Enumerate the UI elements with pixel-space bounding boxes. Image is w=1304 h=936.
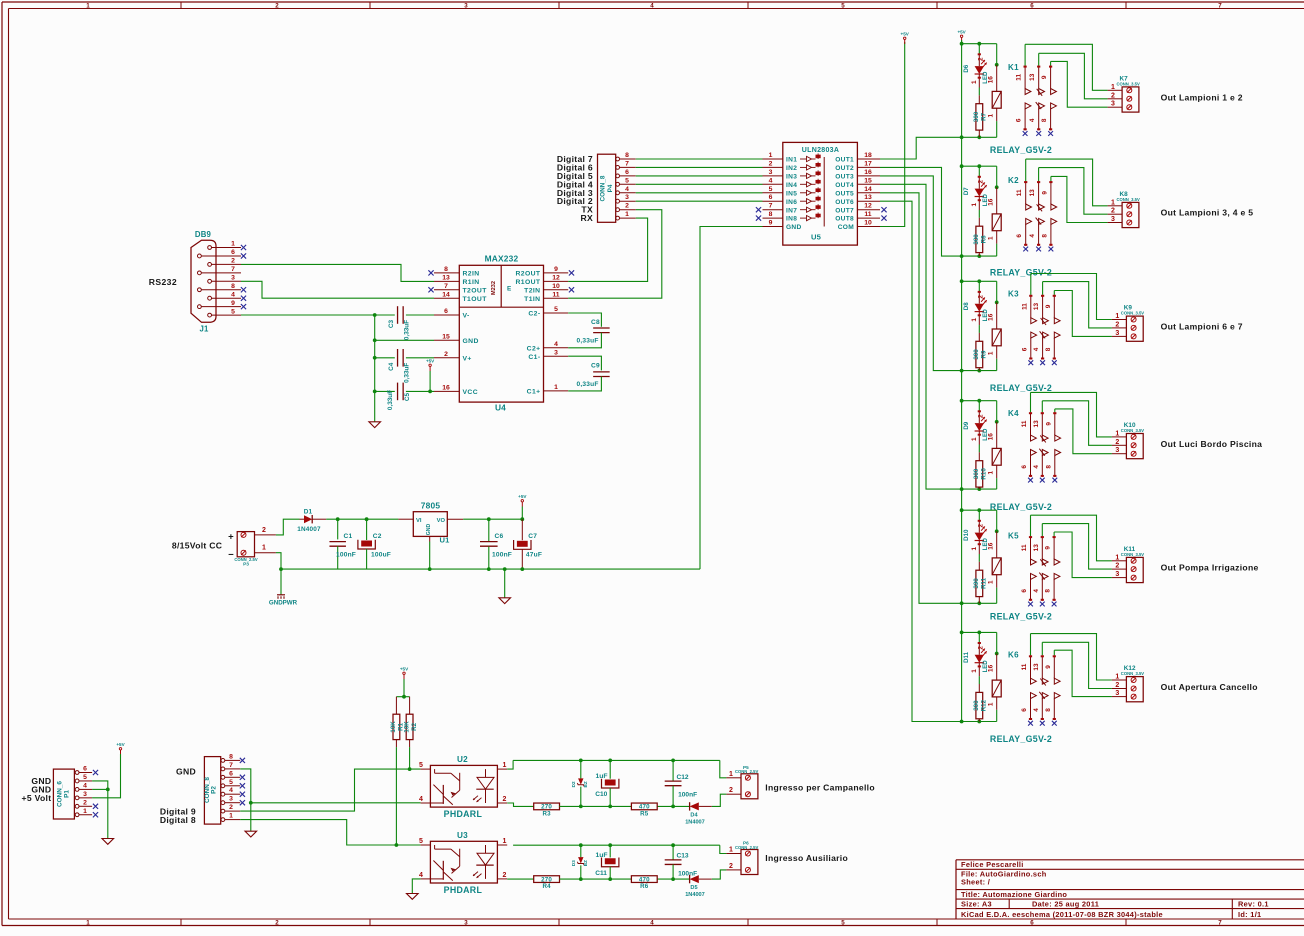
svg-text:6: 6 (1021, 347, 1028, 351)
svg-text:13: 13 (864, 194, 872, 201)
svg-text:100nF: 100nF (678, 792, 697, 799)
zener diode D3 (580, 845, 582, 857)
svg-text:R1OUT: R1OUT (515, 279, 540, 286)
svg-text:1: 1 (971, 546, 978, 550)
svg-text:8: 8 (231, 283, 235, 290)
svg-text:1: 1 (987, 470, 994, 474)
svg-text:T2IN: T2IN (524, 287, 540, 294)
svg-text:0,33uF: 0,33uF (577, 381, 599, 388)
no-connect P1 pins 6 2 1 (93, 770, 98, 775)
svg-text:1: 1 (1115, 313, 1119, 320)
svg-text:13: 13 (1029, 73, 1036, 81)
svg-text:16: 16 (988, 664, 995, 672)
svg-text:R2OUT: R2OUT (515, 271, 540, 278)
svg-text:U2: U2 (457, 755, 468, 764)
svg-text:R5: R5 (640, 810, 649, 817)
svg-text:390: 390 (973, 111, 980, 122)
svg-text:T2OUT: T2OUT (463, 287, 488, 294)
relay K5 contacts (1030, 515, 1032, 536)
svg-text:5: 5 (419, 762, 423, 769)
svg-text:R2IN: R2IN (463, 271, 480, 278)
svg-text:13: 13 (1033, 303, 1040, 311)
connector J1 DB9 (191, 240, 216, 322)
svg-text:5: 5 (419, 838, 423, 845)
svg-text:D5: D5 (690, 885, 697, 891)
ground symbol below P2 (245, 831, 257, 837)
wire P2 pin1 to U3 pin5 (240, 820, 420, 845)
svg-text:+5V: +5V (901, 32, 910, 37)
svg-text:2: 2 (1115, 439, 1119, 446)
svg-text:D2: D2 (571, 781, 576, 787)
svg-text:+5V: +5V (400, 667, 409, 672)
LED D9 (978, 401, 980, 412)
svg-text:3: 3 (1115, 690, 1119, 697)
wire bottom rail relay block 2 (962, 255, 997, 257)
svg-text:16: 16 (988, 76, 995, 84)
svg-text:1: 1 (987, 580, 994, 584)
svg-text:CONN_2.5V: CONN_2.5V (735, 769, 758, 774)
wire LED to resistor R11 (978, 554, 980, 562)
capacitor C9 0,33uF (568, 356, 601, 370)
connector K11 CONN_3.5V (1126, 557, 1143, 582)
connector P6 CONN_2.5V (741, 850, 758, 875)
svg-text:U5: U5 (811, 233, 822, 242)
svg-text:13: 13 (1029, 189, 1036, 197)
svg-text:CONN_3.5V: CONN_3.5V (1121, 671, 1144, 676)
relay K3 contacts (1030, 274, 1032, 295)
resistor R8 300 (978, 218, 980, 226)
wire R1 down to U3 pin5 net (395, 747, 397, 845)
svg-text:C5: C5 (404, 392, 411, 401)
svg-text:GNDPWR: GNDPWR (269, 599, 298, 606)
svg-text:+: + (228, 532, 234, 543)
wires P4 to U5 inputs (636, 158, 763, 160)
svg-text:C2-: C2- (528, 311, 540, 318)
capacitor C7 47uF (521, 519, 523, 540)
svg-text:2: 2 (275, 2, 279, 9)
svg-text:10: 10 (552, 283, 560, 290)
svg-text:+5V: +5V (957, 30, 966, 35)
wire LED to resistor R7 (978, 88, 980, 96)
capacitor C10 1uF (609, 760, 611, 778)
svg-text:11: 11 (1021, 544, 1028, 551)
svg-text:R4: R4 (542, 883, 551, 890)
svg-text:IN2: IN2 (786, 165, 797, 172)
svg-text:2: 2 (444, 351, 448, 358)
svg-text:7: 7 (1218, 2, 1222, 9)
svg-text:4: 4 (83, 782, 87, 789)
wire LED to resistor R9 (978, 325, 980, 333)
wires relay K6 contacts to K12 (1031, 634, 1112, 680)
svg-text:P4: P4 (607, 184, 614, 192)
svg-text:OUT8: OUT8 (835, 216, 854, 223)
svg-text:Date: 25 aug 2011: Date: 25 aug 2011 (1032, 899, 1099, 908)
wire U5 OUT1 to relay K1 (880, 137, 962, 159)
svg-text:K3: K3 (1008, 290, 1019, 299)
svg-text:1: 1 (729, 771, 733, 778)
optocoupler U3 PHDARL (430, 841, 497, 883)
capacitor C11 1uF (609, 845, 611, 857)
svg-text:OUT6: OUT6 (835, 199, 854, 206)
wire +5V rail relay block 5 (962, 509, 997, 511)
svg-text:8: 8 (1045, 589, 1052, 593)
svg-text:OUT4: OUT4 (835, 182, 854, 189)
svg-text:11: 11 (1021, 303, 1028, 310)
wire DB9 pin3 to U4 T1OUT (241, 281, 434, 298)
capacitor C8 0,33uF (568, 313, 601, 327)
resistor R4 270 (507, 878, 534, 880)
relay K1 coil (996, 44, 998, 65)
svg-text:4: 4 (231, 291, 235, 298)
svg-text:8: 8 (1041, 234, 1048, 238)
relay K4 contacts (1030, 392, 1032, 412)
svg-text:1: 1 (971, 437, 978, 441)
wires relay K4 contacts to K10 (1031, 392, 1112, 437)
svg-text:D9: D9 (963, 421, 970, 429)
svg-text:+5V: +5V (426, 359, 435, 364)
wire U3 pin4 to ground (412, 879, 420, 894)
svg-text:1: 1 (971, 318, 978, 322)
svg-text:CONN_3.5V: CONN_3.5V (1121, 552, 1144, 557)
svg-text:2: 2 (275, 920, 279, 927)
wire U5 OUT5 to relay K5 (880, 193, 962, 604)
wire bus to U4 V+ with C4 (375, 357, 395, 359)
svg-text:5: 5 (554, 306, 558, 313)
IC U5 ULN2803A (783, 142, 858, 245)
svg-text:RX: RX (580, 213, 593, 223)
svg-text:5: 5 (83, 774, 87, 781)
svg-text:300: 300 (973, 349, 980, 360)
svg-text:2: 2 (729, 787, 733, 794)
capacitor C1 100nF (337, 519, 339, 539)
wire U5 COM to +5V (880, 42, 905, 227)
svg-text:1: 1 (971, 202, 978, 206)
svg-text:R6: R6 (640, 883, 649, 890)
svg-text:CONN_3.5V: CONN_3.5V (1117, 82, 1140, 87)
wire P3 pin2 to D1 (276, 519, 300, 535)
svg-text:13: 13 (1033, 544, 1040, 552)
U5 interior driver cells (823, 157, 825, 227)
no-connect J1 pins 1 6 8 4 9 (241, 245, 246, 250)
wire bottom rail relay block 4 (962, 488, 997, 490)
svg-text:R3: R3 (542, 810, 551, 817)
svg-text:390: 390 (973, 578, 980, 589)
svg-text:Out Lampioni 1 e 2: Out Lampioni 1 e 2 (1161, 92, 1243, 102)
relay K2 contacts (1025, 159, 1027, 181)
svg-text:J1: J1 (199, 325, 209, 334)
wire DB9 pin5 to U4 V- with C3 (241, 314, 395, 316)
svg-text:CONN_2.5V: CONN_2.5V (735, 845, 758, 850)
svg-text:U1: U1 (439, 536, 450, 545)
svg-text:DB9: DB9 (195, 230, 212, 239)
relay K5 coil (996, 510, 998, 531)
connector P2 CONN_8 (204, 757, 220, 825)
svg-text:VO: VO (437, 518, 446, 524)
capacitor C2 100uF (366, 519, 368, 540)
svg-text:6: 6 (444, 308, 448, 315)
resistor R7 390 (978, 95, 980, 103)
svg-text:IN1: IN1 (786, 157, 797, 164)
svg-text:3: 3 (464, 920, 468, 927)
svg-text:C7: C7 (528, 533, 537, 540)
wire U5 OUT6 to relay K6 (880, 201, 962, 721)
svg-text:3: 3 (1111, 101, 1115, 108)
resistor R12 300 (978, 684, 980, 692)
svg-text:8: 8 (1045, 347, 1052, 351)
wire LED to resistor R8 (978, 210, 980, 218)
svg-text:Out Pompa Irrigazione: Out Pompa Irrigazione (1161, 563, 1259, 573)
svg-text:2: 2 (231, 258, 235, 265)
svg-text:16: 16 (988, 313, 995, 321)
svg-text:7: 7 (444, 283, 448, 290)
wire U4 T1IN to P4 TX (568, 210, 662, 299)
svg-text:RELAY_G5V-2: RELAY_G5V-2 (990, 612, 1052, 622)
svg-text:1: 1 (769, 152, 773, 159)
svg-text:14: 14 (442, 291, 450, 298)
svg-text:6: 6 (1021, 589, 1028, 593)
svg-text:Size: A3: Size: A3 (961, 899, 992, 908)
svg-text:16: 16 (988, 198, 995, 206)
power ground rail (281, 568, 700, 570)
svg-text:C1-: C1- (528, 354, 540, 361)
LED D11 (978, 632, 980, 643)
wire R2 down to U2 pin5 net (409, 747, 411, 769)
svg-text:5: 5 (841, 2, 845, 9)
svg-text:2: 2 (502, 872, 506, 879)
svg-text:C2: C2 (373, 533, 382, 540)
relay K4 coil (996, 401, 998, 422)
wire LED to resistor R10 (978, 445, 980, 453)
svg-text:9: 9 (1045, 546, 1052, 550)
wire rail to connector P6 pin1 (720, 845, 727, 853)
capacitor C4 0,33uF (397, 349, 399, 367)
svg-text:5: 5 (769, 186, 773, 193)
svg-text:1: 1 (971, 669, 978, 673)
svg-text:C6: C6 (495, 533, 504, 540)
svg-text:V-: V- (463, 313, 470, 320)
svg-text:1: 1 (987, 113, 994, 117)
svg-text:9: 9 (231, 300, 235, 307)
svg-text:Out Lampioni 6 e 7: Out Lampioni 6 e 7 (1161, 321, 1243, 331)
svg-text:7805: 7805 (421, 501, 441, 511)
svg-text:K6: K6 (1008, 651, 1019, 660)
svg-text:3: 3 (231, 275, 235, 282)
svg-text:0,33uF: 0,33uF (577, 338, 599, 345)
svg-text:7: 7 (625, 160, 629, 167)
svg-text:OUT2: OUT2 (835, 165, 854, 172)
svg-text:1: 1 (231, 241, 235, 248)
svg-text:1N4007: 1N4007 (297, 526, 321, 533)
svg-text:3: 3 (1115, 330, 1119, 337)
svg-text:5: 5 (231, 308, 235, 315)
relay K3 coil (996, 281, 998, 302)
connector K8 CONN_3.5V (1122, 202, 1139, 227)
svg-text:300: 300 (973, 700, 980, 711)
connector P5 CONN_2.5V (741, 774, 758, 799)
svg-text:M232: M232 (491, 281, 497, 295)
ground symbol power rail (504, 569, 506, 598)
svg-text:RELAY_G5V-2: RELAY_G5V-2 (990, 383, 1052, 393)
wires relay K1 contacts to K7 (1025, 44, 1108, 90)
svg-text:4: 4 (554, 341, 558, 348)
connector K9 CONN_3.5V (1126, 316, 1143, 341)
svg-text:D11: D11 (963, 651, 970, 663)
svg-text:5: 5 (625, 177, 629, 184)
svg-text:Out Apertura Cancello: Out Apertura Cancello (1161, 682, 1258, 692)
svg-text:GND: GND (786, 224, 802, 231)
wire GND bus to U4 GND pin15 (375, 339, 434, 341)
svg-text:3: 3 (625, 194, 629, 201)
wire bottom rail relay block 6 (962, 721, 997, 723)
svg-text:4: 4 (1033, 347, 1040, 351)
resistor R9 300 (978, 333, 980, 341)
svg-text:1uF: 1uF (596, 773, 608, 780)
svg-text:COM: COM (838, 224, 854, 231)
svg-text:100nF: 100nF (336, 552, 356, 559)
LED D6 (978, 44, 980, 55)
svg-text:1: 1 (1111, 199, 1115, 206)
svg-text:4: 4 (650, 920, 654, 927)
svg-text:1N4007: 1N4007 (685, 819, 705, 825)
svg-text:RELAY_G5V-2: RELAY_G5V-2 (990, 268, 1052, 278)
wire rail to connector P5 pin1 (720, 760, 727, 777)
svg-text:C1+: C1+ (527, 389, 541, 396)
resistor R6 470 (631, 876, 657, 883)
svg-text:T1OUT: T1OUT (463, 296, 488, 303)
svg-text:D8: D8 (963, 302, 970, 310)
svg-text:11: 11 (1016, 189, 1023, 196)
svg-text:K4: K4 (1008, 409, 1019, 418)
no-connect U5 IN7 IN8 OUT7 OUT8 (756, 207, 761, 212)
svg-text:8: 8 (1045, 708, 1052, 712)
wire R3 to diode D4 (559, 805, 631, 807)
svg-text:C11: C11 (595, 870, 607, 877)
svg-text:6: 6 (769, 194, 773, 201)
svg-text:16: 16 (988, 433, 995, 441)
svg-text:3: 3 (1111, 216, 1115, 223)
svg-text:T1IN: T1IN (524, 296, 540, 303)
svg-text:3: 3 (1115, 571, 1119, 578)
svg-text:4: 4 (229, 787, 233, 794)
svg-text:PHDARL: PHDARL (444, 885, 483, 895)
wire +5V rail relay block 6 (962, 631, 997, 633)
wires relay K5 contacts to K11 (1031, 515, 1112, 561)
svg-text:+5V: +5V (116, 742, 125, 747)
svg-text:0,33uF: 0,33uF (404, 363, 411, 383)
svg-text:11: 11 (864, 211, 871, 218)
svg-text:4: 4 (1033, 589, 1040, 593)
svg-text:−: − (228, 550, 234, 561)
svg-text:9: 9 (1041, 191, 1048, 195)
diode D4 1N4007 (689, 802, 691, 810)
svg-text:2: 2 (769, 160, 773, 167)
svg-text:Sheet: /: Sheet: / (961, 877, 990, 886)
svg-text:2: 2 (729, 863, 733, 870)
wire D1 to U1 VI (326, 518, 398, 520)
svg-text:1: 1 (86, 920, 90, 927)
svg-text:6: 6 (1021, 465, 1028, 469)
relay K1 contacts (1024, 44, 1026, 65)
svg-text:C13: C13 (677, 853, 689, 860)
diode D5 1N4007 (689, 875, 691, 883)
wire U5 OUT2 to relay K2 (880, 167, 962, 256)
svg-text:K5: K5 (1008, 532, 1019, 541)
svg-text:VCC: VCC (463, 389, 479, 396)
svg-text:D4: D4 (690, 812, 698, 818)
svg-text:10K: 10K (403, 721, 410, 733)
svg-text:7: 7 (769, 203, 773, 210)
svg-text:KiCad E.D.A. eeschema (2011-0: KiCad E.D.A. eeschema (2011-07-08 BZR 30… (961, 910, 1163, 919)
svg-text:4: 4 (1029, 234, 1036, 238)
svg-text:P1: P1 (64, 790, 71, 798)
svg-text:CONN_3.5V: CONN_3.5V (1117, 197, 1140, 202)
svg-text:RELAY_G5V-2: RELAY_G5V-2 (990, 734, 1052, 744)
svg-text:1: 1 (987, 702, 994, 706)
svg-text:6: 6 (1016, 234, 1023, 238)
svg-text:1: 1 (1115, 674, 1119, 681)
svg-text:VI: VI (416, 518, 422, 524)
capacitor C6 100nF (488, 519, 490, 541)
svg-text:2: 2 (1111, 208, 1115, 215)
capacitor C3 0,33uF (397, 306, 399, 324)
svg-text:4: 4 (419, 872, 423, 879)
wire U2 pin4 to ground net (251, 802, 421, 804)
svg-text:5: 5 (841, 920, 845, 927)
svg-text:11: 11 (1021, 663, 1028, 670)
wire bottom rail relay block 3 (962, 370, 997, 372)
wire +5V rail relay block 3 (962, 280, 997, 282)
svg-text:7: 7 (229, 762, 233, 769)
svg-text:R2: R2 (411, 722, 418, 730)
diode D1 1N4007 (304, 515, 312, 523)
svg-text:1: 1 (625, 211, 629, 218)
svg-text:18: 18 (864, 152, 872, 159)
resistor R10 300 (978, 452, 980, 460)
wire DB9 pin2 to U4 R1IN (241, 264, 434, 281)
IC U4 MAX232 (459, 265, 543, 402)
svg-text:8: 8 (444, 266, 448, 273)
no-connect P2 pins 8 6 5 4 3 (240, 758, 245, 763)
wire +5V rail relay block 1 (962, 43, 997, 45)
svg-text:1: 1 (971, 80, 978, 84)
svg-text:RS232: RS232 (149, 277, 177, 287)
svg-text:2: 2 (625, 203, 629, 210)
svg-text:3: 3 (769, 169, 773, 176)
svg-text:16: 16 (988, 542, 995, 550)
svg-text:GND: GND (426, 523, 432, 535)
svg-text:Felice Pescarelli: Felice Pescarelli (961, 860, 1024, 869)
svg-text:1N4007: 1N4007 (685, 892, 705, 898)
wire D5 to connector P6 (712, 870, 727, 879)
regulator U1 7805 (413, 512, 447, 537)
svg-text:R1IN: R1IN (463, 279, 480, 286)
svg-text:3: 3 (554, 349, 558, 356)
svg-text:C10: C10 (595, 791, 607, 798)
svg-text:D10: D10 (963, 529, 970, 541)
capacitor C5 0,33uF (397, 383, 399, 401)
svg-text:8: 8 (625, 152, 629, 159)
svg-text:6: 6 (1030, 2, 1034, 9)
capacitor C13 100nF (672, 845, 674, 860)
relay K2 coil (996, 166, 998, 187)
svg-text:CONN_3.5V: CONN_3.5V (1121, 428, 1144, 433)
svg-text:7: 7 (1218, 920, 1222, 927)
svg-text:IN4: IN4 (786, 182, 797, 189)
svg-text:13: 13 (442, 275, 450, 282)
svg-text:K2: K2 (1008, 176, 1019, 185)
svg-text:15: 15 (864, 177, 872, 184)
svg-text:4: 4 (1029, 118, 1036, 122)
